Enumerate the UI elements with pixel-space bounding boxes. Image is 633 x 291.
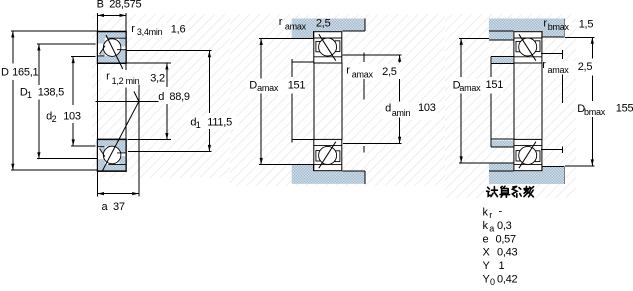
dimension Da max (fig3) bbox=[459, 38, 489, 162]
bearing upper half-section (fig3) bbox=[514, 32, 542, 63]
dimension Db max (fig3) bbox=[565, 37, 594, 166]
svg-text:1,5: 1,5 bbox=[579, 18, 594, 30]
bearing side faces between half-sections (fig3) bbox=[514, 63, 542, 140]
housing lower block (fig2) bbox=[292, 165, 365, 184]
svg-text:amax: amax bbox=[257, 83, 279, 93]
svg-text:2,5: 2,5 bbox=[316, 17, 331, 29]
svg-text:k: k bbox=[483, 207, 489, 219]
housing upper block (fig3) bbox=[489, 19, 564, 40]
rb tick lines (fig3) bbox=[541, 50, 563, 153]
svg-text:X: X bbox=[483, 247, 491, 259]
svg-text:2: 2 bbox=[52, 114, 57, 124]
svg-text:r: r bbox=[346, 64, 350, 76]
extension line right face bbox=[125, 13, 127, 70]
shaft shoulder lines right (fig2) bbox=[342, 55, 401, 143]
svg-text:-: - bbox=[499, 206, 503, 218]
housing lower block (fig3) bbox=[489, 163, 564, 184]
svg-text:1,6: 1,6 bbox=[171, 23, 186, 35]
dimension a bbox=[97, 193, 139, 195]
svg-text:155: 155 bbox=[616, 102, 633, 114]
svg-text:138,5: 138,5 bbox=[38, 87, 64, 99]
svg-text:a: a bbox=[489, 224, 494, 234]
svg-text:37: 37 bbox=[113, 201, 125, 213]
dimension d1 bbox=[126, 51, 211, 152]
svg-text:0,57: 0,57 bbox=[496, 234, 517, 246]
pressure centre vertical bbox=[138, 85, 140, 197]
svg-text:151: 151 bbox=[486, 79, 504, 91]
svg-text:d: d bbox=[158, 91, 164, 103]
svg-text:e: e bbox=[483, 234, 489, 246]
ra max leader (fig3) bbox=[561, 75, 563, 104]
svg-text:1,2 min: 1,2 min bbox=[112, 76, 140, 86]
svg-text:151: 151 bbox=[288, 80, 306, 92]
svg-text:r: r bbox=[131, 23, 135, 35]
svg-text:1: 1 bbox=[196, 120, 201, 130]
svg-text:28,575: 28,575 bbox=[109, 0, 141, 11]
svg-text:r: r bbox=[542, 59, 546, 71]
svg-text:amax: amax bbox=[459, 83, 481, 93]
svg-text:amin: amin bbox=[392, 108, 411, 118]
bearing upper half-section (fig1) bbox=[97, 31, 126, 63]
svg-text:103: 103 bbox=[63, 111, 81, 123]
svg-text:bmax: bmax bbox=[584, 107, 606, 117]
svg-text:103: 103 bbox=[418, 102, 436, 114]
svg-text:bmax: bmax bbox=[548, 22, 570, 32]
dimension Da max (fig2) bbox=[259, 39, 292, 165]
svg-text:0,43: 0,43 bbox=[497, 247, 518, 259]
housing upper block (fig2) bbox=[292, 19, 365, 39]
bearing lower half-section (fig1) bbox=[97, 139, 126, 171]
ra max leader (fig2) bbox=[363, 53, 365, 153]
dimension D: vertical line, arrows, extension lines bbox=[11, 31, 98, 170]
svg-text:a: a bbox=[102, 201, 109, 213]
dimension da min (fig2) bbox=[399, 55, 401, 143]
svg-text:2,5: 2,5 bbox=[382, 66, 397, 78]
svg-text:1: 1 bbox=[27, 90, 32, 100]
contact angle line upper bbox=[106, 35, 123, 69]
svg-text:0,42: 0,42 bbox=[497, 274, 518, 286]
extension line left face bbox=[96, 13, 98, 197]
svg-text:r: r bbox=[543, 17, 547, 29]
svg-text:3,4min: 3,4min bbox=[137, 27, 163, 37]
svg-text:88,9: 88,9 bbox=[169, 91, 190, 103]
dimension d2 bbox=[71, 57, 96, 146]
shaft shoulder strip upper (fig3) bbox=[492, 57, 514, 63]
svg-text:k: k bbox=[483, 220, 489, 232]
faint diagonal hatch background bbox=[92, 14, 230, 178]
svg-text:r: r bbox=[279, 16, 283, 28]
heading (hand-drawn CJK glyphs) bbox=[487, 186, 534, 197]
svg-text:B: B bbox=[97, 0, 104, 11]
dimension d bbox=[126, 63, 171, 140]
svg-text:r: r bbox=[489, 210, 492, 220]
bearing side faces between half-sections (fig2) bbox=[314, 63, 342, 140]
svg-text:2,5: 2,5 bbox=[578, 61, 593, 73]
dimension B: line and arrows bbox=[97, 14, 126, 16]
svg-text:amax: amax bbox=[352, 70, 374, 80]
svg-text:1: 1 bbox=[499, 260, 505, 272]
svg-text:0: 0 bbox=[490, 277, 495, 287]
svg-text:3,2: 3,2 bbox=[150, 72, 165, 84]
contact angle line lower bbox=[102, 101, 139, 171]
svg-text:165,1: 165,1 bbox=[12, 67, 38, 79]
svg-text:0,3: 0,3 bbox=[497, 220, 512, 232]
shaft shoulder face vertical (fig3) bbox=[490, 57, 492, 77]
bearing lower half-section (fig2) bbox=[314, 139, 342, 170]
svg-text:D: D bbox=[1, 67, 9, 79]
shaft outline left (fig2) bbox=[292, 59, 314, 143]
dimension D1 bbox=[37, 44, 97, 159]
svg-text:Y: Y bbox=[483, 260, 491, 272]
svg-text:d: d bbox=[385, 102, 391, 114]
svg-text:amax: amax bbox=[285, 21, 307, 31]
svg-text:111,5: 111,5 bbox=[207, 117, 232, 129]
white halos behind labels bbox=[101, 23, 576, 129]
bearing upper half-section (fig2) bbox=[314, 32, 342, 63]
svg-text:r: r bbox=[106, 71, 110, 83]
shaft shoulder strip lower (fig3) bbox=[492, 140, 514, 146]
axis line to d label bbox=[96, 100, 159, 102]
svg-text:amax: amax bbox=[548, 65, 570, 75]
bearing lower half-section (fig3) bbox=[514, 139, 542, 170]
svg-text:D: D bbox=[249, 80, 257, 92]
